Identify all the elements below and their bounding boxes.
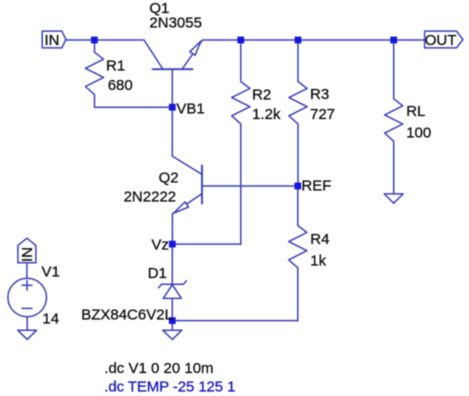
wire R2 bottom to Vz rail bbox=[240, 124, 242, 244]
resistor RL bbox=[385, 99, 403, 141]
transistor Q2 collector diagonal bbox=[172, 156, 202, 174]
transistor Q1 emitter arrow bbox=[190, 41, 201, 55]
V1 minus sign bbox=[22, 307, 32, 309]
svg-text:REF: REF bbox=[301, 178, 331, 195]
svg-text:RL: RL bbox=[406, 103, 425, 120]
svg-text:V1: V1 bbox=[42, 264, 60, 281]
transistor Q1 base bar bbox=[153, 68, 193, 70]
wire bottom rail to D1 node bbox=[172, 320, 297, 322]
wire R3 top drop bbox=[297, 40, 299, 82]
wire Vz rail bbox=[172, 243, 241, 245]
svg-text:1.2k: 1.2k bbox=[252, 106, 281, 123]
wire RL top drop bbox=[393, 40, 395, 99]
wire R3 bottom to REF bbox=[297, 124, 299, 186]
wire D1 anode down bbox=[171, 298, 173, 330]
svg-text:2N3055: 2N3055 bbox=[149, 15, 202, 32]
wire IN to Q1 collector bbox=[66, 39, 144, 41]
wire Q2 emitter to Vz bbox=[171, 214, 173, 244]
transistor Q2 base bar bbox=[201, 166, 203, 204]
resistor R4 bbox=[289, 226, 307, 268]
svg-text:14: 14 bbox=[42, 311, 59, 328]
node VB1 junction bbox=[169, 104, 176, 111]
node junction top R2 bbox=[237, 37, 244, 44]
svg-text:.dc TEMP -25 125 1: .dc TEMP -25 125 1 bbox=[104, 378, 235, 395]
voltage source V1 circle bbox=[8, 278, 47, 317]
node junction top RL bbox=[390, 37, 397, 44]
diode D1 triangle bbox=[163, 285, 181, 299]
node junction top R3 bbox=[295, 37, 302, 44]
port OUT bbox=[425, 31, 463, 48]
wire V1 to ground bbox=[26, 317, 28, 330]
wire R2 top drop bbox=[240, 40, 242, 82]
svg-text:2N2222: 2N2222 bbox=[124, 188, 177, 205]
svg-text:R1: R1 bbox=[106, 57, 125, 74]
wire Vz to D1 bbox=[171, 244, 173, 284]
resistor R3 bbox=[289, 82, 307, 124]
svg-text:R2: R2 bbox=[252, 86, 271, 103]
transistor Q2 emitter arrow bbox=[174, 202, 189, 213]
ground V1 bbox=[18, 330, 37, 339]
svg-text:Q2: Q2 bbox=[159, 169, 179, 186]
svg-text:VB1: VB1 bbox=[176, 101, 204, 118]
wire R4 bottom bbox=[297, 268, 299, 321]
svg-text:R4: R4 bbox=[310, 231, 329, 248]
svg-text:R3: R3 bbox=[310, 86, 329, 103]
node D1 ground junction bbox=[169, 317, 176, 324]
transistor Q1 collector diagonal bbox=[144, 40, 163, 69]
wire REF to R4 bbox=[297, 186, 299, 226]
node Vz junction bbox=[169, 241, 176, 248]
svg-text:Vz: Vz bbox=[151, 237, 169, 254]
resistor R1 bbox=[85, 52, 103, 94]
svg-text:IN: IN bbox=[19, 247, 36, 262]
svg-text:1k: 1k bbox=[310, 253, 326, 270]
wire top rail to OUT bbox=[203, 39, 425, 41]
svg-text:680: 680 bbox=[108, 77, 133, 94]
wire V1 port to source bbox=[26, 263, 28, 279]
diode D1 cathode bar bbox=[159, 281, 187, 288]
wire Q2 base to REF bbox=[202, 185, 298, 187]
svg-text:BZX84C6V2L: BZX84C6V2L bbox=[81, 306, 173, 323]
ground D1 node bbox=[163, 330, 182, 339]
svg-text:OUT: OUT bbox=[425, 32, 457, 49]
wire R1 top drop bbox=[94, 40, 96, 52]
port IN bbox=[42, 31, 66, 48]
svg-text:IN: IN bbox=[45, 32, 60, 49]
resistor R2 bbox=[232, 82, 250, 124]
svg-text:D1: D1 bbox=[148, 265, 167, 282]
wire Q1 base to Q2 collector bbox=[171, 69, 173, 156]
ground RL bbox=[384, 194, 403, 203]
wire R1 bottom bbox=[95, 95, 173, 108]
node junction top R1 bbox=[91, 37, 98, 44]
svg-text:.dc V1 0 20 10m: .dc V1 0 20 10m bbox=[104, 360, 213, 377]
svg-text:100: 100 bbox=[406, 125, 431, 142]
port flag IN at V1 bbox=[18, 238, 36, 263]
V1 plus sign bbox=[22, 284, 32, 286]
node REF junction bbox=[294, 183, 301, 190]
wire RL bottom bbox=[393, 141, 395, 194]
transistor Q2 emitter diagonal bbox=[172, 194, 202, 214]
svg-text:727: 727 bbox=[310, 106, 335, 123]
transistor Q1 emitter diagonal bbox=[183, 40, 203, 69]
